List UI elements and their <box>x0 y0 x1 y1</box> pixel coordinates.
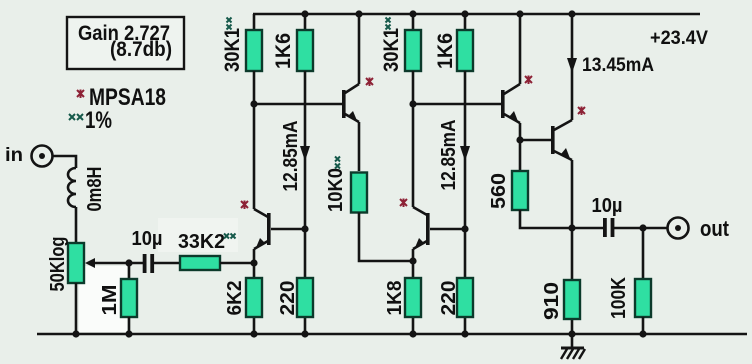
wire 33K2 to T1 emitter node <box>220 262 254 265</box>
svg-text:1K6: 1K6 <box>272 33 295 69</box>
wire cap to 33K2 <box>154 262 180 265</box>
wire output node to cap <box>572 227 603 230</box>
svg-text:6K2: 6K2 <box>224 281 246 316</box>
transistor T1 <box>241 201 271 251</box>
svg-text:13.45mA: 13.45mA <box>582 55 654 76</box>
svg-text:30K1: 30K1 <box>380 28 403 72</box>
wire T4 emitter down <box>519 123 522 171</box>
node T4 base junction <box>409 100 416 107</box>
resistor 100K <box>635 228 651 334</box>
wire T5 collector <box>571 14 574 120</box>
transistor T5 <box>551 107 585 162</box>
svg-text:0m8H: 0m8H <box>84 167 106 212</box>
resistor 1M <box>121 263 137 334</box>
out connector <box>668 218 689 239</box>
wire T1 emitter down <box>253 249 256 334</box>
node 220 second rail junction <box>461 330 468 337</box>
svg-text:out: out <box>700 216 730 241</box>
resistor 910 <box>564 280 580 319</box>
node T4 collector rail junction <box>516 10 523 17</box>
node T4 emitter junction <box>516 136 523 143</box>
node 220 rail junction <box>301 330 308 337</box>
wire T2 collector <box>358 14 361 84</box>
svg-text:33K2: 33K2 <box>178 231 225 253</box>
node 1K8 rail junction <box>409 330 416 337</box>
white patch behind 1M <box>79 266 127 332</box>
wire 560 to output node <box>520 210 572 228</box>
node pot-rail junction <box>72 330 79 337</box>
wire T2 emitter to 10K0 <box>358 122 361 171</box>
node 100K rail junction <box>639 330 646 337</box>
svg-text:30K1: 30K1 <box>221 28 244 72</box>
wire bottom rail <box>37 333 747 336</box>
wire wiper to cap <box>93 262 143 265</box>
svg-text:+23.4V: +23.4V <box>650 28 708 49</box>
wire base of T2 <box>254 103 342 106</box>
in connector <box>32 146 53 167</box>
svg-text:1K6: 1K6 <box>434 33 457 69</box>
resistor 1K8 <box>405 278 421 317</box>
svg-text:10µ: 10µ <box>132 228 163 250</box>
resistor 1K6 first <box>297 14 313 71</box>
resistor 30K1 first <box>246 14 262 71</box>
potentiometer 50Klog <box>68 243 95 283</box>
gain box <box>67 17 184 69</box>
transistor T3 <box>400 199 430 251</box>
wire T4 collector <box>519 14 522 84</box>
wire 10K0 to T3 emitter node <box>359 213 413 262</box>
svg-text:100K: 100K <box>608 277 630 319</box>
svg-text:10K0: 10K0 <box>325 168 347 212</box>
wire 30K1 to T3 collector <box>412 71 415 207</box>
svg-text:220: 220 <box>277 281 299 316</box>
node 1M top junction <box>125 259 132 266</box>
wire to T4 base <box>413 103 501 106</box>
node 1K6 top rail junction <box>301 10 308 17</box>
resistor 220 second <box>457 278 473 317</box>
wire 30K1 down to T1 collector <box>253 71 256 209</box>
capacitor 10u input <box>143 254 154 273</box>
legend stars 1% <box>69 107 112 134</box>
wire T3 base <box>430 228 465 231</box>
svg-text:in: in <box>5 145 23 166</box>
node T3 base junction <box>461 225 468 232</box>
current arrow 13.45mA <box>567 55 654 76</box>
node T3 emitter junction <box>409 257 416 264</box>
resistor 1K6 second <box>457 14 473 71</box>
wire top rail <box>253 13 700 16</box>
wire 1K6 down to rail <box>304 71 307 334</box>
node 6K2 rail junction <box>250 330 257 337</box>
svg-text:1%: 1% <box>85 107 112 134</box>
current arrow 12.85mA second <box>438 120 470 191</box>
wire T5 emitter down <box>571 160 574 334</box>
wire in to coil <box>53 156 77 168</box>
svg-text:(8.7db): (8.7db) <box>110 38 172 61</box>
wire T1 base <box>271 228 305 231</box>
resistor 6K2 <box>246 278 262 317</box>
svg-text:1M: 1M <box>99 285 121 316</box>
ground <box>561 334 585 359</box>
resistor 30K1 second <box>405 14 421 71</box>
svg-text:50Klog: 50Klog <box>47 237 69 292</box>
svg-text:10µ: 10µ <box>592 195 623 217</box>
wire cap to 100K node <box>614 227 667 230</box>
wire to T5 base <box>520 139 551 142</box>
node output junction <box>568 224 575 231</box>
resistor 220 first <box>297 278 313 317</box>
transistor T2 <box>342 78 373 124</box>
wire 1K6 second down <box>464 71 467 334</box>
svg-text:1K8: 1K8 <box>384 281 406 316</box>
node T2 collector rail junction <box>355 10 362 17</box>
wire pot to rail <box>75 283 78 334</box>
svg-text:910: 910 <box>541 282 563 320</box>
wire coil to pot <box>75 207 78 243</box>
svg-text:12.85mA: 12.85mA <box>280 121 302 192</box>
node 1K6 second rail junction <box>461 10 468 17</box>
resistor 33K2 <box>180 256 220 270</box>
node 910 rail junction <box>568 330 575 337</box>
current arrow 12.85mA first <box>280 121 310 192</box>
wire T3 emitter down <box>412 249 415 334</box>
node 30K1 second rail junction <box>409 10 416 17</box>
legend star MPSA18 <box>77 84 166 111</box>
node T1 emitter junction <box>250 259 257 266</box>
node T5 collector rail junction <box>568 10 575 17</box>
capacitor 10u output <box>603 218 614 237</box>
svg-text:560: 560 <box>488 173 510 209</box>
resistor 10K0 <box>351 173 367 213</box>
node 100K top junction <box>639 224 646 231</box>
inductor 0m8H <box>68 168 76 207</box>
transistor T4 <box>501 76 532 125</box>
white patch near 33K2 <box>158 218 238 252</box>
svg-text:12.85mA: 12.85mA <box>438 120 460 191</box>
node T2 base junction <box>250 100 257 107</box>
node T1 base junction <box>301 225 308 232</box>
resistor 560 <box>512 171 528 210</box>
node 1M-rail junction <box>125 330 132 337</box>
svg-text:220: 220 <box>438 281 460 316</box>
